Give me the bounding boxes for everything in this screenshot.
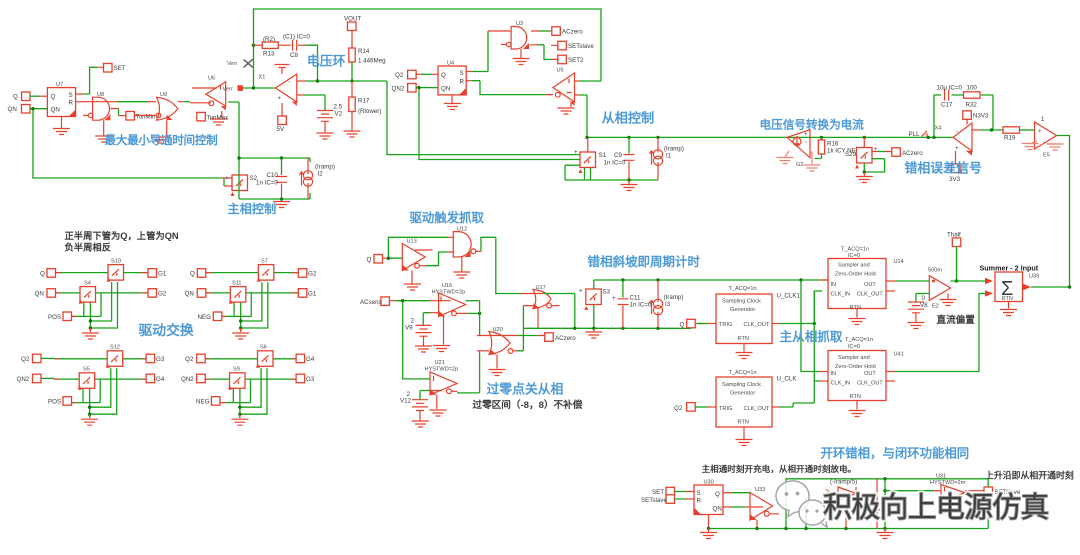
svg-text:Sampling Clock: Sampling Clock bbox=[722, 382, 761, 388]
ground below U3 bbox=[513, 49, 530, 65]
svg-text:直流偏置: 直流偏置 bbox=[937, 314, 976, 326]
svg-text:U17: U17 bbox=[536, 285, 546, 291]
wire Q to U7 bbox=[30, 95, 40, 97]
svg-text:S10: S10 bbox=[111, 259, 121, 265]
svg-text:HYSTWD=2p: HYSTWD=2p bbox=[425, 367, 459, 373]
terminal ACzero top bbox=[552, 27, 583, 36]
svg-text:500m: 500m bbox=[928, 268, 942, 274]
terminal 3V3 bbox=[949, 151, 961, 183]
terminal G3 outBR bbox=[296, 374, 305, 383]
svg-text:积极向上电源仿真: 积极向上电源仿真 bbox=[823, 491, 1049, 524]
terminal ACzero mid2 bbox=[545, 333, 576, 342]
flip-flop U7 bbox=[47, 82, 75, 117]
wire U31 input bbox=[883, 489, 941, 492]
ground below U5 bbox=[558, 103, 575, 114]
comparator U21 bbox=[425, 360, 459, 395]
wire E5 out down to summer bbox=[1057, 136, 1070, 288]
svg-text:从相控制: 从相控制 bbox=[602, 110, 655, 126]
svg-text:Zero-Order Hold: Zero-Order Hold bbox=[835, 272, 876, 278]
svg-text:QN2: QN2 bbox=[181, 376, 194, 383]
resistor R16 bbox=[815, 136, 861, 159]
svg-text:Q: Q bbox=[680, 322, 685, 329]
wire U13 out to U12 bbox=[420, 252, 454, 266]
switch cell TL wires bbox=[55, 265, 149, 339]
svg-text:S: S bbox=[69, 92, 73, 99]
svg-text:I3: I3 bbox=[665, 301, 671, 308]
svg-text:+: + bbox=[612, 295, 616, 302]
node QN input terminal bbox=[8, 105, 31, 114]
svg-text:S: S bbox=[460, 70, 464, 77]
svg-text:过零区间（-8，8）不补偿: 过零区间（-8，8）不补偿 bbox=[473, 399, 583, 411]
svg-text:G1: G1 bbox=[308, 291, 317, 298]
ground below U6 bbox=[210, 111, 227, 125]
svg-text:RTN: RTN bbox=[850, 305, 861, 311]
svg-text:U7: U7 bbox=[56, 82, 63, 88]
nand U12 bbox=[453, 227, 476, 258]
svg-text:Q2: Q2 bbox=[395, 72, 404, 79]
wire QN2 to U4 and down to S1 bbox=[416, 86, 580, 160]
svg-text:Generator: Generator bbox=[730, 307, 755, 313]
svg-text:负半周相反: 负半周相反 bbox=[65, 242, 112, 253]
svg-text:-: - bbox=[956, 128, 958, 135]
svg-text:+: + bbox=[955, 145, 959, 152]
svg-text:Q: Q bbox=[441, 72, 446, 79]
amplifier E5 bbox=[1035, 116, 1057, 159]
wire U16 out bbox=[457, 312, 469, 314]
svg-text:SET2: SET2 bbox=[568, 57, 584, 64]
svg-text:E5: E5 bbox=[1043, 153, 1050, 159]
terminal QN2 bbox=[392, 84, 417, 93]
capacitor C11 bbox=[612, 280, 652, 328]
ground U30 bbox=[700, 515, 717, 539]
wire E2 input bbox=[928, 280, 930, 282]
svg-text:Q2: Q2 bbox=[21, 356, 30, 363]
terminal POS BL bbox=[63, 397, 72, 406]
svg-text:S3: S3 bbox=[603, 289, 611, 296]
wire U5 plus input bbox=[575, 80, 581, 82]
terminal TonMax bbox=[197, 112, 229, 121]
svg-text:RTN: RTN bbox=[1002, 296, 1013, 302]
svg-text:R: R bbox=[460, 79, 465, 86]
svg-text:SETslave: SETslave bbox=[568, 43, 594, 50]
svg-text:主从相抓取: 主从相抓取 bbox=[780, 329, 843, 344]
ground below U7 bbox=[53, 117, 70, 135]
switch cell BL wires bbox=[54, 351, 148, 425]
svg-text:S7: S7 bbox=[261, 259, 268, 265]
terminal G1 outTR bbox=[298, 289, 307, 298]
svg-text:ACsens: ACsens bbox=[360, 299, 382, 306]
switch S3 bbox=[579, 288, 611, 311]
nand U3 bbox=[488, 21, 529, 49]
svg-text:1n IC=0: 1n IC=0 bbox=[630, 302, 652, 309]
terminal Q2 cellBL bbox=[33, 354, 42, 363]
wire rail into IN1 bbox=[820, 279, 828, 281]
comparator U5 bbox=[553, 68, 575, 106]
svg-text:R: R bbox=[69, 100, 74, 107]
wire U30 QN crossing bbox=[723, 506, 763, 508]
capacitor C9 bbox=[604, 137, 635, 180]
wire U14 OUT to E2 bbox=[886, 280, 895, 282]
probe X cross Verr bbox=[227, 59, 253, 68]
opamp X1 bbox=[259, 74, 297, 106]
svg-text:(Iramp): (Iramp) bbox=[315, 164, 335, 171]
switch tick PLL bbox=[909, 131, 936, 139]
capacitor C10 bbox=[256, 158, 287, 199]
wire Q2 to U4 bbox=[416, 73, 438, 75]
terminal G4 out bbox=[146, 374, 155, 383]
svg-text:R16: R16 bbox=[827, 141, 839, 148]
svg-text:TRIG: TRIG bbox=[719, 406, 732, 412]
watermark wechat logo bbox=[776, 481, 827, 527]
svg-text:最大最小导通时间控制: 最大最小导通时间控制 bbox=[105, 133, 218, 147]
svg-text:R13: R13 bbox=[263, 51, 275, 58]
ground below U12 bbox=[453, 257, 470, 278]
svg-text:-: - bbox=[289, 79, 291, 86]
terminal G2 out bbox=[148, 289, 157, 298]
ground E2 bbox=[940, 294, 957, 306]
svg-text:Verr: Verr bbox=[223, 87, 233, 93]
svg-text:U3: U3 bbox=[516, 21, 523, 27]
terminal NEG BR bbox=[211, 397, 220, 406]
svg-text:U12: U12 bbox=[457, 227, 467, 233]
wire U17 crossing right bbox=[543, 294, 575, 329]
wire CLK_OUT2 to vertical bbox=[772, 406, 780, 408]
ground ramp cell 1 bbox=[273, 202, 290, 208]
svg-text:HYSTWD=2m: HYSTWD=2m bbox=[930, 480, 966, 486]
terminal Thalf bbox=[947, 232, 961, 247]
svg-text:CLK_IN: CLK_IN bbox=[831, 381, 851, 387]
wire E2 ref to V8 bbox=[916, 294, 929, 303]
svg-text:CLK_OUT: CLK_OUT bbox=[744, 322, 770, 328]
svg-text:I2: I2 bbox=[318, 171, 324, 178]
ground below U9 bbox=[152, 121, 169, 144]
svg-text:IC=0: IC=0 bbox=[848, 253, 860, 259]
resistor R19 bbox=[1003, 127, 1020, 142]
wire U20 out up to U17 bbox=[513, 350, 517, 352]
svg-text:ACzero: ACzero bbox=[555, 335, 576, 342]
svg-text:T_ACQ=1n: T_ACQ=1n bbox=[729, 370, 757, 376]
ground summer bbox=[1000, 302, 1017, 316]
terminal Q cellTL bbox=[47, 269, 56, 278]
wire U3 lower out to SETslave and SET2 bbox=[530, 45, 558, 60]
svg-text:S6: S6 bbox=[260, 345, 267, 351]
svg-text:SETslave: SETslave bbox=[641, 497, 667, 504]
svg-text:G2: G2 bbox=[158, 291, 167, 298]
battery V9 bbox=[405, 318, 432, 353]
current source Iramp5 bbox=[822, 479, 857, 529]
svg-text:Verr: Verr bbox=[227, 61, 237, 67]
svg-text:上升沿即从相开通时刻: 上升沿即从相开通时刻 bbox=[985, 470, 1074, 481]
svg-text:R14: R14 bbox=[358, 48, 370, 55]
svg-text:POS: POS bbox=[48, 314, 61, 321]
capacitor C8 bbox=[278, 34, 310, 60]
svg-text:IN: IN bbox=[831, 371, 837, 377]
resistor R32 bbox=[964, 85, 981, 109]
opamp X4 bbox=[935, 123, 973, 156]
svg-text:Q: Q bbox=[715, 491, 720, 498]
svg-text:IC=0: IC=0 bbox=[848, 344, 860, 350]
svg-text:ACzero: ACzero bbox=[562, 29, 583, 36]
svg-text:SET: SET bbox=[652, 489, 664, 496]
svg-text:I1: I1 bbox=[666, 153, 672, 160]
svg-text:(Rlower): (Rlower) bbox=[358, 108, 381, 115]
terminal POS TL bbox=[63, 312, 72, 321]
resistor R14 bbox=[349, 31, 386, 82]
block sampling clock generator 1 bbox=[716, 286, 772, 344]
svg-text:1: 1 bbox=[1041, 116, 1045, 123]
wire U17 inputs and stub bbox=[522, 294, 560, 329]
svg-text:T_ACQ=1n: T_ACQ=1n bbox=[729, 286, 757, 292]
svg-text:电压信号转换为电流: 电压信号转换为电流 bbox=[760, 118, 865, 132]
svg-text:Q2: Q2 bbox=[185, 356, 194, 363]
svg-text:S1: S1 bbox=[599, 152, 607, 159]
svg-text:CLK_IN: CLK_IN bbox=[831, 292, 851, 298]
wire U7.R to U9 bbox=[76, 101, 117, 103]
terminal N3V3 bbox=[963, 111, 989, 125]
svg-text:U33: U33 bbox=[755, 487, 765, 493]
terminal SETslave bottom bbox=[641, 495, 675, 504]
ground U14 bbox=[849, 309, 866, 325]
svg-text:正半周下管为Q，上管为QN: 正半周下管为Q，上管为QN bbox=[65, 230, 179, 241]
svg-text:+: + bbox=[574, 149, 578, 156]
nand U8 bbox=[83, 92, 110, 120]
switch S2 bbox=[225, 175, 258, 196]
svg-text:OUT: OUT bbox=[864, 282, 876, 288]
wire Verr node bbox=[243, 44, 275, 90]
svg-text:+: + bbox=[579, 288, 583, 295]
ground below U21 bbox=[430, 395, 447, 416]
svg-text:5V: 5V bbox=[277, 126, 285, 133]
svg-text:+: + bbox=[278, 95, 282, 102]
terminal G2 outTR bbox=[298, 269, 307, 278]
svg-text:Q: Q bbox=[190, 271, 195, 278]
probe Verr bbox=[223, 85, 244, 92]
svg-text:Sampler and: Sampler and bbox=[838, 263, 870, 269]
ground below U13 bbox=[404, 271, 421, 291]
svg-text:(R2): (R2) bbox=[263, 36, 275, 43]
wire U8 out to TonMin bbox=[110, 108, 118, 110]
ground below U20 bbox=[489, 355, 506, 376]
svg-text:RTN: RTN bbox=[738, 336, 749, 342]
svg-text:HYSTWD=2p: HYSTWD=2p bbox=[432, 290, 466, 296]
svg-text:QN: QN bbox=[713, 506, 722, 513]
wire SET terms to U30 bbox=[675, 492, 687, 500]
terminal ACzero mid bbox=[892, 148, 923, 157]
wire CLK_OUT1 to U14 bbox=[772, 323, 780, 325]
terminal 5V below X1 bbox=[277, 103, 287, 133]
svg-text:开环错相，与闭环功能相同: 开环错相，与闭环功能相同 bbox=[821, 446, 970, 461]
svg-text:RTN: RTN bbox=[738, 420, 749, 426]
svg-text:Summer - 2 Input: Summer - 2 Input bbox=[980, 264, 1039, 273]
svg-text:U30: U30 bbox=[704, 480, 714, 486]
svg-text:G3: G3 bbox=[156, 356, 165, 363]
svg-text:G2: G2 bbox=[308, 271, 317, 278]
ground E5 left bbox=[1022, 141, 1039, 150]
terminal SET2 bbox=[558, 55, 584, 64]
block sampler U41 bbox=[828, 337, 904, 401]
current source I3 bbox=[650, 280, 684, 328]
svg-text:TonMin: TonMin bbox=[136, 114, 157, 121]
svg-text:ACzero: ACzero bbox=[902, 150, 923, 157]
svg-text:S4: S4 bbox=[84, 281, 91, 287]
svg-text:CLK_OUT: CLK_OUT bbox=[857, 381, 883, 387]
svg-text:+: + bbox=[225, 175, 229, 182]
svg-text:U20: U20 bbox=[493, 327, 503, 333]
terminal Q2 right bbox=[674, 403, 695, 412]
wire U4.R to U5 bbox=[466, 81, 553, 95]
terminal QN2 cellBL bbox=[33, 374, 42, 383]
comparator U13 bbox=[402, 239, 432, 271]
svg-text:POS: POS bbox=[48, 399, 61, 406]
svg-text:1n IC=0: 1n IC=0 bbox=[256, 180, 278, 187]
wire Q to TRIG1 bbox=[698, 323, 708, 325]
svg-text:1.446Meg: 1.446Meg bbox=[358, 58, 386, 65]
block sampling clock generator 2 bbox=[716, 370, 772, 427]
node Q input terminal bbox=[13, 92, 30, 101]
wire U41 OUT to summer bbox=[886, 371, 895, 373]
svg-text:U39: U39 bbox=[1029, 274, 1039, 280]
wire into U6 upper input bbox=[192, 87, 217, 89]
svg-text:U31: U31 bbox=[936, 474, 946, 480]
ground SCG1 bbox=[736, 344, 753, 359]
svg-text:+: + bbox=[804, 131, 808, 138]
wire Q2 to TRIG2 bbox=[695, 406, 708, 408]
svg-text:S11: S11 bbox=[232, 281, 242, 287]
switch cell BR wires bbox=[204, 351, 298, 425]
svg-text:(Iramp): (Iramp) bbox=[664, 146, 684, 153]
wire Q to U13 and feedback up to U12 bbox=[383, 237, 454, 260]
comparator U16 bbox=[432, 283, 466, 317]
wire S29 control loop bbox=[856, 159, 885, 183]
ramp cell 1 wires bbox=[237, 156, 310, 200]
wire ext BL bbox=[41, 358, 55, 378]
wire U16 crossing to bus bbox=[466, 300, 480, 302]
svg-text:PLL: PLL bbox=[909, 131, 921, 138]
svg-text:驱动触发抓取: 驱动触发抓取 bbox=[410, 210, 485, 225]
wire cell box bbox=[786, 477, 988, 528]
svg-text:VOUT: VOUT bbox=[344, 16, 361, 23]
svg-text:S5: S5 bbox=[83, 367, 90, 373]
ground bottom mid bbox=[877, 529, 894, 539]
terminal Q mid bbox=[367, 255, 383, 264]
svg-text:主相控制: 主相控制 bbox=[228, 201, 277, 216]
frame line bottom bbox=[8, 9, 602, 216]
svg-text:Generator: Generator bbox=[730, 391, 755, 397]
svg-text:QN: QN bbox=[8, 106, 17, 113]
terminal Q2 bbox=[395, 70, 416, 79]
wire QN to U7 and long wire down to S2 bbox=[30, 107, 232, 186]
nor U20 bbox=[489, 327, 513, 355]
svg-text:S29: S29 bbox=[845, 151, 857, 158]
svg-text:CLK_OUT: CLK_OUT bbox=[744, 406, 770, 412]
terminal VOUT bbox=[344, 16, 361, 31]
svg-text:C17: C17 bbox=[941, 102, 953, 109]
terminal QN2 cellBR bbox=[197, 374, 206, 383]
vccs G2 bbox=[787, 130, 810, 168]
svg-text:U_CLK: U_CLK bbox=[777, 376, 798, 383]
wire bus segA bbox=[479, 301, 481, 336]
terminal ACsens bbox=[360, 297, 389, 306]
wire long rail A bbox=[585, 136, 953, 139]
svg-text:2.5: 2.5 bbox=[334, 104, 343, 111]
svg-text:G4: G4 bbox=[306, 356, 315, 363]
terminal G1 out bbox=[148, 269, 157, 278]
svg-text:QN: QN bbox=[51, 107, 60, 114]
svg-text:OUT: OUT bbox=[864, 371, 876, 377]
terminal Q2 cellBR bbox=[197, 354, 206, 363]
amplifier E2 bbox=[928, 268, 951, 310]
ground below U4 bbox=[444, 95, 461, 110]
wire U20 bottom input bbox=[477, 350, 489, 352]
wire S1 bottom loop bbox=[565, 165, 658, 180]
stub CLK_OUT2 bbox=[886, 380, 895, 382]
svg-text:Zero-Order Hold: Zero-Order Hold bbox=[835, 364, 876, 370]
svg-text:N3V3: N3V3 bbox=[973, 113, 989, 120]
resistor R13 bbox=[254, 36, 279, 58]
svg-text:主相通时刻开充电，从相开通时刻放电。: 主相通时刻开充电，从相开通时刻放电。 bbox=[702, 463, 857, 474]
ground E5 right bbox=[1047, 143, 1064, 150]
flip-flop U4 bbox=[438, 61, 466, 95]
capacitor C17 bbox=[937, 85, 963, 109]
svg-text:V2: V2 bbox=[335, 111, 343, 118]
svg-text:V12: V12 bbox=[400, 398, 412, 405]
svg-text:C10: C10 bbox=[267, 172, 279, 179]
wire bottom bus bbox=[709, 527, 986, 530]
wire divider node down to S1 row bbox=[387, 81, 580, 155]
svg-text:Sampling Clock: Sampling Clock bbox=[722, 299, 761, 305]
svg-text:U16: U16 bbox=[442, 283, 452, 289]
svg-text:U21: U21 bbox=[435, 360, 445, 366]
switch S1 bbox=[574, 137, 607, 173]
svg-text:Q2: Q2 bbox=[674, 405, 683, 412]
svg-text:G4: G4 bbox=[156, 376, 165, 383]
wire CLK_IN2 bbox=[820, 380, 828, 382]
wire U9 out to U6 bbox=[178, 102, 211, 103]
wire X4 feedback loop bbox=[934, 95, 993, 137]
svg-text:X1: X1 bbox=[259, 75, 266, 81]
switch S29 bbox=[845, 136, 878, 169]
ground G2 right bbox=[804, 152, 821, 171]
terminal TonMin bbox=[126, 112, 156, 121]
stub CLK_OUT1 bbox=[886, 290, 895, 292]
svg-text:RTN: RTN bbox=[850, 394, 861, 400]
comparator U31 bbox=[930, 474, 966, 502]
wire TonMin to U9 bubble bbox=[134, 114, 156, 116]
svg-text:U4: U4 bbox=[447, 61, 454, 67]
svg-text:R32: R32 bbox=[966, 102, 978, 109]
svg-text:Q: Q bbox=[40, 271, 45, 278]
switch cell TR wires bbox=[205, 265, 299, 339]
nor U17 bbox=[533, 285, 551, 309]
power bar above X1 bbox=[275, 65, 290, 75]
ground ramp cell 2 bbox=[621, 178, 638, 190]
nor U9 bbox=[156, 92, 178, 120]
svg-text:G1: G1 bbox=[158, 271, 167, 278]
svg-text:SET: SET bbox=[114, 65, 126, 72]
svg-text:0: 0 bbox=[922, 295, 926, 302]
current source I2 bbox=[300, 158, 335, 199]
svg-text:U13: U13 bbox=[407, 239, 417, 245]
flip-flop U30 bbox=[694, 480, 723, 515]
svg-text:IN: IN bbox=[831, 282, 837, 288]
svg-text:V9: V9 bbox=[405, 325, 413, 332]
svg-text:Q: Q bbox=[51, 94, 56, 101]
comparator U33 bbox=[750, 487, 779, 529]
svg-text:G2: G2 bbox=[796, 162, 803, 168]
ramp cell 3 wires bbox=[523, 278, 828, 330]
svg-text:C8: C8 bbox=[290, 52, 298, 59]
svg-text:E2: E2 bbox=[932, 304, 939, 310]
